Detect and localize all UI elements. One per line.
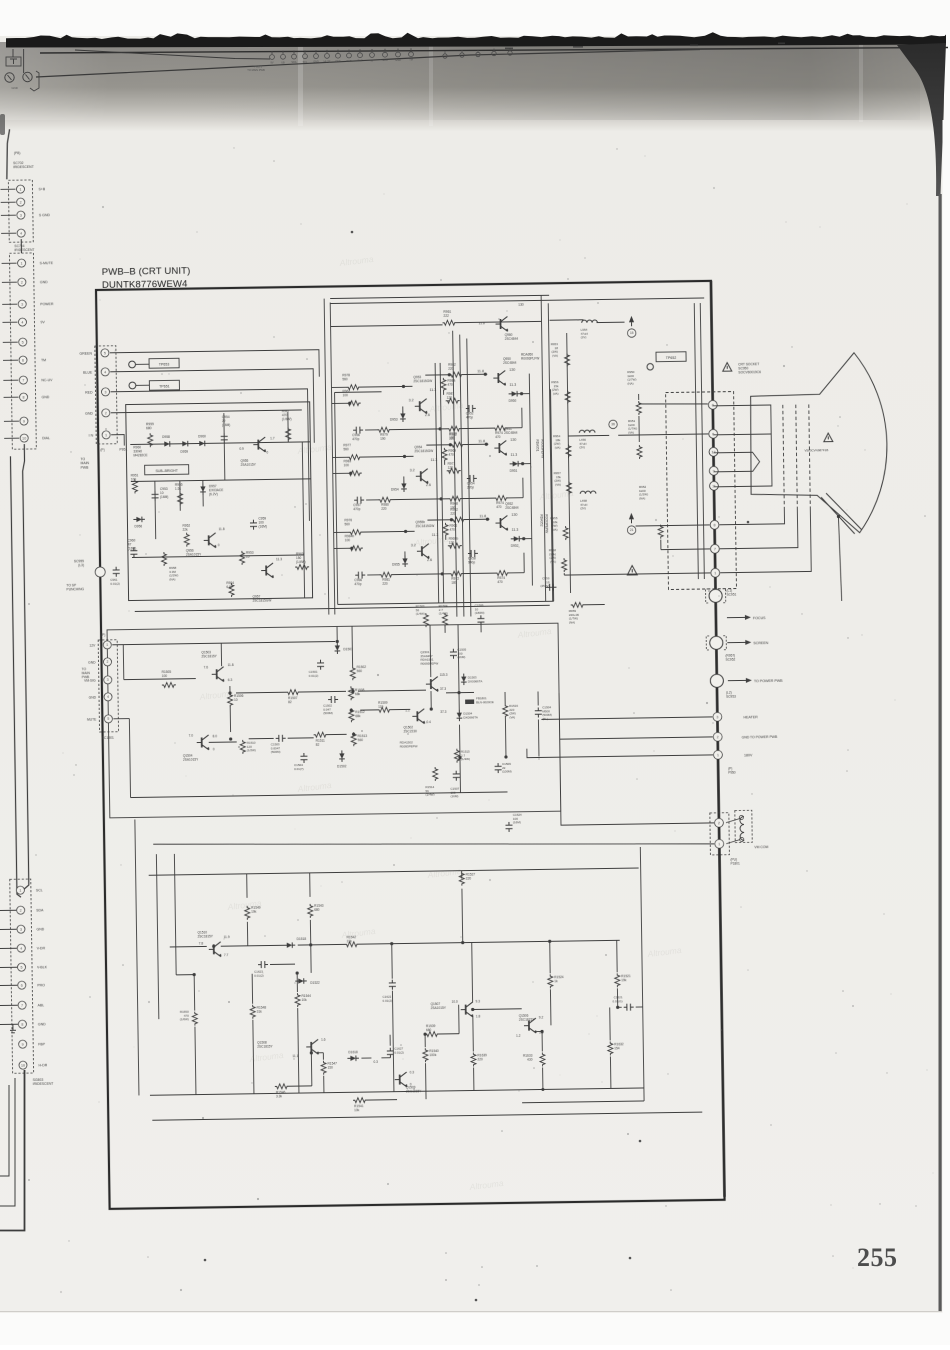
svg-text:130: 130 [510,438,516,442]
screen arrow [727,641,745,643]
svg-text:130: 130 [511,513,517,517]
svg-text:470p: 470p [352,437,359,441]
diode D1618 [350,1056,356,1061]
svg-text:NC-UV: NC-UV [41,378,53,382]
VM block outline [107,623,561,818]
svg-text:MUTE: MUTE [323,60,330,63]
svg-text:SC952: SC952 [726,658,736,662]
svg-text:220: 220 [381,507,387,511]
resistor R1514 [433,767,438,781]
leftover pin row [270,55,275,60]
arrow mark 15 [629,316,634,322]
wire IN P951 [111,435,124,446]
SC704 pin 6 [3,359,18,361]
transistor Q1504 [201,737,203,747]
svg-text:GND: GND [38,1022,46,1026]
leftover bracket [30,71,39,91]
svg-text:VM COM: VM COM [754,845,768,849]
svg-text:D950: D950 [509,399,517,403]
svg-text:470: 470 [496,505,502,509]
wire to VM pin2 [559,691,714,825]
svg-text:V-BLK: V-BLK [37,965,48,969]
svg-text:4: 4 [20,946,22,950]
svg-text:DX0066TA: DX0066TA [468,679,483,683]
resistor R979|190 [377,427,391,432]
svg-text:RDA951: RDA951 [535,439,539,451]
wire GND P951 [111,410,302,413]
resistor R980|220 [378,497,392,502]
svg-text:100: 100 [343,393,349,397]
bottom block left verticals [135,819,139,1095]
svg-text:HEATER: HEATER [743,715,758,719]
svg-text:(16M): (16M) [451,794,459,798]
stage wires [334,531,349,533]
svg-text:190: 190 [380,437,386,441]
svg-text:2SC2230: 2SC2230 [404,729,418,733]
capacitor C1507 [453,771,460,781]
diode D955 [402,558,407,564]
svg-text:2SC1815GW: 2SC1815GW [253,598,272,602]
svg-text:10: 10 [234,698,238,702]
warning mark [627,566,637,575]
SG803 pin 1 [16,886,24,894]
RGB block border [335,392,338,604]
svg-text:RDA952: RDA952 [539,514,543,526]
svg-text:R0093PLFW: R0093PLFW [521,356,539,360]
sub-bright block outline [126,402,313,601]
svg-text:100: 100 [344,463,350,467]
SG803 pin 7 [0,1004,18,1006]
resistor R1543 [308,904,313,918]
capacitor C960 [130,547,137,557]
svg-text:6: 6 [22,358,24,362]
resistor R1506 [227,693,232,707]
CRT pin 12 [709,447,718,456]
wire sub row [130,442,310,445]
svg-text:PWB: PWB [81,466,90,470]
svg-text:3: 3 [107,678,109,682]
capacitor C1509 [495,763,502,773]
resistor R972|180 [449,571,463,576]
capacitor C961 [113,567,120,577]
resistor R968|190 [448,496,462,501]
svg-text:CUT: CUT [346,60,352,63]
svg-text:I N: I N [89,434,94,438]
svg-text:3.3k: 3.3k [276,1094,282,1098]
pin 3 heater [713,712,722,721]
svg-text:37.3: 37.3 [440,710,446,714]
stage centre bus [435,363,439,603]
svg-text:680: 680 [314,908,320,912]
svg-text:11.8: 11.8 [479,514,486,518]
rail right vertical pair [541,295,546,601]
svg-text:1.6: 1.6 [321,1038,326,1042]
svg-text:560: 560 [357,669,363,673]
resistor R1509 [377,707,391,712]
capacitor C1622 [389,980,396,990]
svg-text:RED: RED [85,391,93,395]
svg-text:8.0: 8.0 [213,734,218,738]
svg-text:154: 154 [614,1046,620,1050]
CRT gun wire 6 [713,433,771,436]
diode D950 [512,391,518,396]
svg-text:(16M): (16M) [160,495,168,499]
resistor R1546 [275,1084,289,1089]
svg-text:BLN-0020CE: BLN-0020CE [476,700,494,704]
svg-text:0: 0 [213,747,215,751]
svg-text:(2V): (2V) [580,506,586,510]
SG803 pin 8 [0,1023,18,1025]
capacitor C1504b [300,753,307,763]
svg-text:0.01(2): 0.01(2) [254,973,264,977]
svg-text:2SA1015Y: 2SA1015Y [431,1006,447,1010]
svg-text:12: 12 [711,450,715,454]
wire GREEN [110,350,319,368]
capacitor C952|470p [466,405,476,412]
svg-text:255: 255 [857,1243,898,1272]
svg-text:TP653: TP653 [159,362,170,366]
resistor R974 [495,570,509,575]
ground at SG803 pin 8 [10,1024,16,1033]
svg-text:(VA): (VA) [553,392,559,396]
SG803 pin 5 [0,966,17,968]
connector SC955 [95,567,105,577]
svg-text:7.7: 7.7 [224,953,229,957]
scan top black bar [6,32,946,47]
CRT gun chevron [713,452,759,472]
svg-text:OUT: OUT [335,60,341,63]
svg-text:OUT: OUT [357,60,363,63]
svg-text:10.0: 10.0 [452,1000,458,1004]
wire RED [111,389,310,524]
connector SC704 [9,253,36,449]
svg-text:9: 9 [22,1042,24,1046]
svg-text:IRIDESCENT: IRIDESCENT [13,165,34,169]
SUB-BRIGHT label [145,465,189,475]
svg-text:470: 470 [448,453,454,457]
svg-text:9V: 9V [370,60,373,63]
svg-text:3: 3 [105,390,107,394]
svg-text:130: 130 [509,368,515,372]
SC1801 pin 4 [104,693,112,701]
inductor L458 [580,491,596,494]
svg-text:2: 2 [21,280,23,284]
svg-text:100: 100 [162,674,168,678]
svg-text:(100M): (100M) [502,769,512,773]
svg-text:SC951: SC951 [727,593,737,597]
SC704 pin 7 [3,379,18,381]
pin column wire [711,281,725,1197]
svg-text:470p: 470p [466,415,473,419]
diode D1522 [298,978,304,983]
svg-text:1k: 1k [554,979,558,983]
svg-text:2.6: 2.6 [425,413,430,417]
capacitor C966|470p [355,572,365,579]
svg-text:3: 3 [20,213,22,217]
svg-text:GND: GND [89,696,97,700]
CRT gun frame [713,405,772,487]
svg-text:(500M): (500M) [323,711,333,715]
SG803 pin 2 [0,909,16,911]
SC702 pin 2 [1,201,16,203]
svg-text:470: 470 [447,383,453,387]
svg-text:3.2: 3.2 [409,398,414,402]
svg-text:0.3: 0.3 [373,1060,378,1064]
SC704 pin 9 [4,420,19,422]
resistor R1515 [454,749,459,763]
svg-text:(500M): (500M) [271,750,281,754]
SC704 pin 8 [4,396,19,398]
resistor R1510 [240,740,245,754]
CRT pin 6 [709,429,718,438]
rail wires right [567,333,571,593]
svg-text:222: 222 [443,314,449,318]
svg-text:MUTE: MUTE [87,718,97,722]
svg-text:180V: 180V [744,753,753,757]
svg-text:2: 2 [718,821,720,825]
svg-text:0.9: 0.9 [239,447,244,451]
svg-text:D955: D955 [392,563,400,567]
resistor R1507 [286,690,300,695]
ferrite FB1801 [465,699,474,704]
svg-text:11.8: 11.8 [478,439,485,443]
diode D959 [182,441,188,446]
svg-text:TP651: TP651 [159,384,170,388]
capacitor C1623 [258,961,268,968]
svg-text:SUB–BRIGHT: SUB–BRIGHT [155,469,178,473]
stage wires [331,386,346,388]
svg-text:(2V): (2V) [579,445,585,449]
test point TP652 [647,364,653,370]
SC702 pin 1 [0,188,15,190]
svg-text:11.8: 11.8 [219,527,225,531]
resistor R984|470 [441,378,446,392]
svg-text:0: 0 [266,450,268,454]
svg-text:560: 560 [358,738,364,742]
P951 pin 2 [102,409,110,417]
svg-text:940p: 940p [468,560,475,564]
PWB-B board outline [96,281,725,1209]
svg-text:GND: GND [313,61,319,64]
leftover wire to bar [23,49,25,73]
svg-text:S-MUTE: S-MUTE [40,261,54,265]
resistor R1521 [615,973,620,987]
svg-text:(NA): (NA) [639,496,645,500]
resistor R930|180 [447,426,461,431]
wire BLUE [110,369,314,446]
focus arrow [727,616,745,618]
svg-text:2: 2 [20,200,22,204]
svg-text:2SA1015Y: 2SA1015Y [183,758,199,762]
resistor R951b [132,479,137,493]
svg-text:4: 4 [104,370,106,374]
leftover wire diagonal [36,50,700,78]
resistor R1544 [295,993,300,1007]
svg-text:GND TO POWER PWB: GND TO POWER PWB [742,735,778,740]
svg-text:(VA): (VA) [552,354,558,358]
SC704 pin 4 [2,321,17,323]
svg-text:0.01(2): 0.01(2) [309,674,319,678]
left edge mark [0,114,5,135]
svg-text:(1/6W): (1/6W) [180,1017,189,1021]
svg-text:115.3: 115.3 [440,673,448,677]
svg-text:D960: D960 [198,434,206,438]
SC704 pin 2 [2,281,17,283]
svg-text:(2V): (2V) [581,335,587,339]
diode D953 [400,413,405,419]
node 21 [629,513,634,519]
bottom block wires [170,945,207,948]
svg-text:8: 8 [712,403,714,407]
svg-text:R0093PEPW: R0093PEPW [421,661,439,665]
transistor Q957 [265,566,267,576]
svg-text:PWB–B (CRT UNIT): PWB–B (CRT UNIT) [102,266,191,278]
svg-text:9V: 9V [40,320,45,324]
svg-text:D1518: D1518 [297,937,307,941]
svg-text:(16M): (16M) [258,524,266,528]
svg-text:680: 680 [426,1028,432,1032]
svg-text:470: 470 [450,528,456,532]
svg-text:220: 220 [466,876,472,880]
svg-text:560: 560 [343,447,349,451]
svg-text:2SC1815Y: 2SC1815Y [201,654,217,658]
svg-text:2SC1815GW: 2SC1815GW [414,449,433,453]
connector SG803 [10,879,34,1073]
svg-text:21: 21 [630,528,634,532]
svg-text:6.3: 6.3 [228,678,233,682]
resistor R981|220 [379,572,393,577]
svg-text:IRIDESCENT: IRIDESCENT [14,248,34,252]
svg-text:2SA1015Y: 2SA1015Y [241,463,257,467]
svg-text:0.4: 0.4 [426,720,431,724]
svg-text:0.01(2): 0.01(2) [110,581,120,585]
svg-text:10k: 10k [302,998,308,1002]
svg-text:D1522: D1522 [310,981,320,985]
bottom block top rail [149,868,639,875]
svg-text:3.2: 3.2 [410,468,415,472]
svg-text:220: 220 [477,1057,483,1061]
svg-text:1: 1 [19,888,21,892]
junction dots VM [228,691,231,694]
wire heater [541,717,712,720]
diode D1502 [339,753,344,759]
svg-text:0: 0 [218,543,220,547]
svg-text:68k: 68k [355,714,361,718]
diode D1501 [335,645,340,651]
VM coil [740,816,744,840]
resistor R1513 [351,732,356,746]
wire SC702-SC704 [20,239,22,253]
svg-text:SDA: SDA [291,61,296,64]
stage output rail [529,374,532,586]
CRT socket box SC950 [666,392,737,590]
svg-text:220: 220 [450,512,456,516]
to power arrow [728,679,746,681]
svg-text:(NA): (NA) [627,381,633,385]
connector SC702 [8,180,33,242]
diode D1503 [461,677,466,683]
svg-text:GND: GND [395,59,401,62]
svg-text:9.2: 9.2 [539,1015,544,1019]
svg-text:11.3: 11.3 [276,557,282,561]
svg-text:1.7: 1.7 [270,436,275,440]
svg-text:11.9: 11.9 [224,935,230,939]
wire to VM pin1 [153,836,714,852]
svg-text:D1502: D1502 [337,764,347,768]
svg-text:SC953: SC953 [726,695,736,699]
svg-text:D951: D951 [510,469,518,473]
SC704 pin 5 [3,341,18,343]
svg-text:2: 2 [105,411,107,415]
svg-text:5: 5 [22,340,24,344]
page right edge [939,194,942,1312]
stage wires [333,456,348,458]
CRT pin 1 [711,568,720,577]
inductor L456 [579,430,595,433]
svg-text:6: 6 [21,983,23,987]
capacitor C950 [546,584,556,591]
svg-text:GND: GND [88,661,96,665]
svg-text:R0093PEPW: R0093PEPW [544,514,548,533]
bottom page edge line [0,1311,942,1313]
resistor R1527 [459,872,464,886]
svg-text:TO MAIN PWB: TO MAIN PWB [247,68,265,72]
svg-text:S GND: S GND [39,213,51,217]
svg-text:(1/6W): (1/6W) [282,417,292,421]
SG803 pin 3 [0,928,16,930]
wire VM in [112,641,335,644]
capacitor C958|940p [468,550,478,557]
svg-text:8: 8 [714,523,716,527]
svg-text:FBP: FBP [38,1042,46,1046]
diode D954 [401,483,406,489]
SC704 pin 3 [2,303,17,305]
svg-text:11.3: 11.3 [509,383,516,387]
resistor R1547 [321,1061,326,1075]
svg-text:DIAL: DIAL [42,436,50,440]
SC1801 pin 1 [103,641,111,649]
svg-text:(16M): (16M) [128,546,136,550]
svg-text:2SC4844: 2SC4844 [505,506,519,510]
svg-text:(NA): (NA) [169,577,175,581]
svg-text:1: 1 [21,261,23,265]
svg-text:SDA: SDA [382,59,387,62]
svg-text:220: 220 [382,582,388,586]
page edge shadow top-right [897,43,946,196]
svg-text:22k: 22k [183,528,189,532]
bottom rails [150,1088,644,1095]
VM block wires [124,679,196,680]
svg-text:TM: TM [409,59,413,62]
capacitor C1627 [387,1048,394,1058]
wire left margin bus A [16,444,31,890]
svg-text:1: 1 [105,433,107,437]
svg-text:150: 150 [328,1066,334,1070]
svg-text:D954: D954 [391,488,399,492]
svg-text:P1801: P1801 [731,862,741,866]
wire sub row3 [132,555,304,558]
svg-text:0.01(2): 0.01(2) [394,1050,404,1054]
svg-text:2: 2 [107,660,109,664]
svg-text:1.2: 1.2 [516,1034,521,1038]
svg-text:19k: 19k [621,978,627,982]
svg-text:2SC4844: 2SC4844 [504,431,518,435]
svg-text:P950: P950 [728,771,736,775]
resistor R1540 [423,1048,428,1062]
svg-text:D958: D958 [162,435,170,439]
svg-text:3: 3 [20,927,22,931]
resistor R969|470 [442,448,447,462]
